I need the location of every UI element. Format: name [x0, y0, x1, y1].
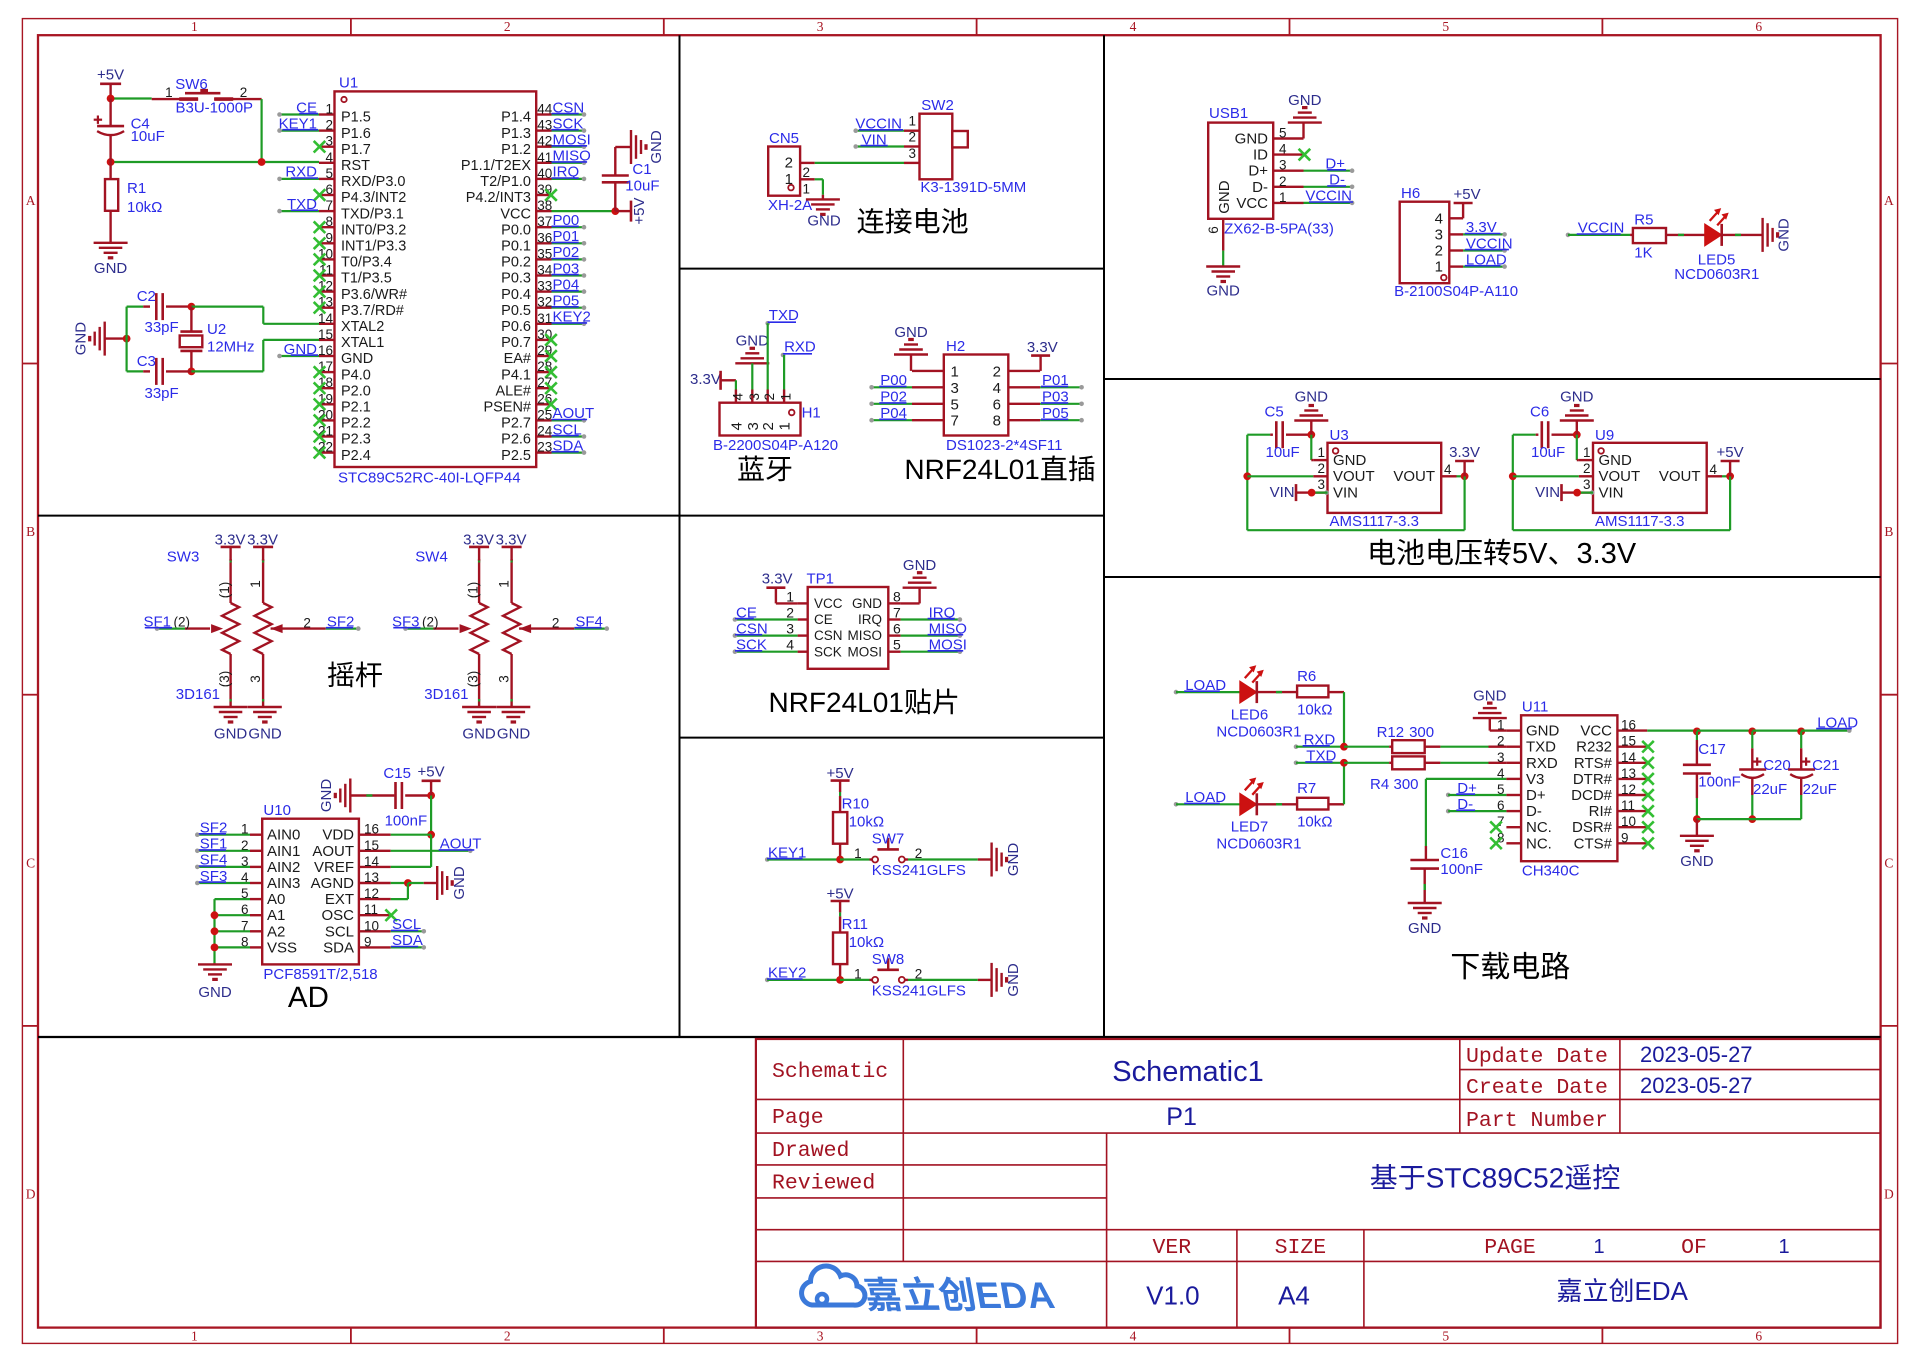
wire R12 to U11.2	[1440, 746, 1488, 748]
net label SCL (U1.24)	[552, 435, 585, 437]
junction VDD	[427, 831, 435, 839]
U1 pin 40 T2/P1.0	[536, 178, 551, 180]
svg-text:A1: A1	[267, 907, 285, 924]
svg-text:2: 2	[803, 165, 811, 180]
H2 pin 2	[1008, 370, 1040, 372]
crystal U2	[190, 307, 192, 332]
svg-text:D-: D-	[1252, 179, 1268, 196]
svg-text:1: 1	[1435, 259, 1443, 276]
svg-text:EXT: EXT	[325, 891, 354, 908]
capacitor C16	[1410, 859, 1439, 862]
svg-text:GND: GND	[341, 351, 373, 367]
svg-text:GND: GND	[248, 725, 282, 742]
svg-text:300: 300	[1409, 724, 1434, 741]
capacitor C3	[143, 370, 150, 372]
svg-text:ALE#: ALE#	[496, 383, 531, 399]
svg-text:AMS1117-3.3: AMS1117-3.3	[1330, 513, 1420, 530]
svg-text:GND: GND	[736, 333, 770, 350]
power flag +5V (H6.4)	[1462, 203, 1464, 218]
led LED7	[1240, 793, 1257, 815]
svg-text:R6: R6	[1297, 668, 1316, 685]
U1 pin 26 PSEN#	[536, 403, 551, 405]
ground GND (U11.1)	[1473, 717, 1507, 719]
svg-text:C16: C16	[1440, 845, 1468, 862]
svg-text:H1: H1	[802, 405, 821, 422]
svg-text:15: 15	[364, 838, 379, 853]
junction C21/VCC	[1797, 728, 1805, 736]
svg-text:SW6: SW6	[175, 76, 208, 93]
ground GND (C17/C20/C21)	[1696, 819, 1698, 836]
net label AOUT (U1.25)	[552, 419, 585, 421]
U10 pin 8 VSS	[250, 946, 262, 948]
svg-text:V3: V3	[1526, 771, 1544, 788]
resistor R7	[1257, 803, 1297, 805]
U3 pin 4 VOUT	[1441, 475, 1456, 477]
svg-text:5: 5	[893, 637, 901, 653]
U1 pin1 indicator circle	[341, 97, 346, 102]
section title NRF24L01直插	[907, 460, 923, 479]
junction C2/XTAL2	[188, 303, 196, 311]
wire R7 to TXD junction	[1343, 763, 1345, 805]
no-connect U11.12	[1642, 789, 1654, 801]
svg-text:U9: U9	[1595, 427, 1614, 444]
no-connect U11.14	[1642, 757, 1654, 769]
net label IRQ (TP1.7)	[901, 618, 960, 620]
svg-text:USB1: USB1	[1209, 105, 1248, 122]
wire C2 row	[127, 306, 144, 308]
U1 pin 16 GND	[319, 355, 335, 357]
U1 pin 8 INT0/P3.2	[319, 226, 335, 228]
ground GND (USB1.6)	[1222, 251, 1224, 267]
U1 pin 30 P0.7	[536, 339, 551, 341]
SW4 left element wire bottom	[478, 654, 480, 707]
net label P04 (U1.33)	[552, 291, 585, 293]
wire SW7 to gnd	[905, 858, 908, 860]
svg-text:100nF: 100nF	[385, 813, 428, 830]
svg-text:PCF8591T/2,518: PCF8591T/2,518	[263, 966, 377, 983]
SW3 right element wire bottom	[262, 654, 264, 707]
H2 pin 1	[912, 370, 944, 372]
svg-text:P3.6/WR#: P3.6/WR#	[341, 287, 407, 303]
net label MOSI (U1.42)	[552, 146, 585, 148]
svg-text:RI#: RI#	[1589, 803, 1613, 820]
pushbutton SW6	[152, 98, 198, 100]
net label P02 (H2.5)	[872, 403, 912, 405]
svg-text:OF: OF	[1681, 1236, 1707, 1260]
svg-text:A4: A4	[1278, 1281, 1310, 1311]
U1 pin 18 P2.0	[319, 387, 335, 389]
U10 pin 4 AIN3	[250, 882, 262, 884]
ground GND (TP1.8)	[903, 587, 937, 589]
svg-text:14: 14	[1621, 750, 1637, 765]
U1 pin 15 XTAL1	[319, 339, 335, 341]
svg-text:AOUT: AOUT	[312, 843, 354, 860]
U1 pin 44 P1.4	[536, 113, 551, 115]
U1 pin 35 P0.2	[536, 258, 551, 260]
no-connect USB1.4	[1299, 149, 1311, 161]
wire CN5.1 to gnd	[815, 178, 823, 180]
USB1 pin 1 VCC	[1273, 202, 1303, 204]
net label LOAD (LED7)	[1174, 802, 1179, 807]
svg-text:SCL: SCL	[325, 923, 354, 940]
svg-text:GND: GND	[1473, 688, 1507, 705]
svg-text:P1.6: P1.6	[341, 126, 371, 142]
svg-text:TXD/P3.1: TXD/P3.1	[341, 206, 404, 222]
net label SF2 (U10.1)	[197, 834, 250, 836]
junction C GND	[1307, 431, 1315, 439]
svg-text:1: 1	[777, 422, 794, 430]
svg-text:SDA: SDA	[323, 939, 354, 956]
svg-text:C15: C15	[383, 765, 411, 782]
svg-text:2: 2	[240, 85, 248, 100]
svg-text:PAGE: PAGE	[1484, 1236, 1536, 1260]
svg-text:NCD0603R1: NCD0603R1	[1216, 835, 1301, 852]
svg-text:VOUT: VOUT	[1599, 468, 1641, 485]
svg-text:DCD#: DCD#	[1571, 787, 1612, 804]
svg-text:3: 3	[908, 146, 916, 161]
svg-text:6: 6	[1755, 1329, 1762, 1344]
svg-text:P2.1: P2.1	[341, 400, 371, 416]
U1 pin 37 P0.0	[536, 226, 551, 228]
svg-text:P3.7/RD#: P3.7/RD#	[341, 303, 404, 319]
svg-text:GND: GND	[1207, 283, 1241, 300]
svg-text:41: 41	[537, 150, 552, 165]
no-connect U11.15	[1642, 741, 1654, 753]
svg-text:+5V: +5V	[1717, 444, 1744, 461]
svg-text:1: 1	[786, 588, 794, 604]
svg-text:4: 4	[728, 422, 745, 430]
resistor R11	[833, 933, 847, 965]
net label SCK (U1.43)	[552, 130, 585, 132]
no-connect U11.11	[1642, 805, 1654, 817]
U1 pin 22 P2.4	[319, 451, 335, 453]
svg-text:33: 33	[537, 279, 552, 294]
svg-text:1: 1	[1317, 445, 1325, 460]
svg-text:P0.2: P0.2	[501, 255, 531, 271]
U1 pin 19 P2.1	[319, 403, 335, 405]
svg-text:+5V: +5V	[631, 198, 648, 225]
led LED6	[1240, 681, 1257, 703]
svg-text:GND: GND	[1526, 723, 1560, 740]
junction AGND/EXT	[404, 879, 412, 887]
wire VCC net	[1647, 729, 1697, 731]
U11 pin 14 RTS#	[1617, 762, 1647, 764]
U11 pin 15 R232	[1617, 746, 1647, 748]
wire RST row	[111, 161, 319, 163]
svg-text:8: 8	[993, 413, 1001, 430]
power flag +5V (C15)	[430, 781, 432, 796]
U10 pin 2 AIN1	[250, 850, 262, 852]
svg-text:P1.7: P1.7	[341, 142, 371, 158]
net label D+ (USB1.3)	[1304, 170, 1353, 172]
svg-text:P2.0: P2.0	[341, 383, 371, 399]
svg-text:GND: GND	[1005, 843, 1022, 877]
svg-text:V1.0: V1.0	[1146, 1281, 1200, 1311]
svg-text:2023-05-27: 2023-05-27	[1640, 1073, 1753, 1098]
SW3 right zigzag	[255, 603, 272, 654]
net label RXD (H1.1)	[781, 353, 786, 358]
svg-text:GND: GND	[198, 984, 232, 1001]
svg-text:(2): (2)	[422, 614, 439, 629]
section title 连接电池	[857, 208, 883, 234]
section title 下载电路	[1452, 954, 1479, 979]
svg-text:2: 2	[1583, 461, 1591, 476]
svg-text:SW8: SW8	[872, 951, 905, 968]
svg-text:R1: R1	[127, 180, 146, 197]
wire C16 to gnd	[1423, 869, 1425, 903]
net label P02 (U1.35)	[552, 258, 585, 260]
CN5 pin 1	[800, 178, 815, 180]
ground GND (C1, rotated right)	[630, 130, 632, 164]
wire AGND	[391, 882, 408, 884]
svg-text:4: 4	[1435, 210, 1443, 227]
U10 pin 16 VDD	[359, 834, 391, 836]
no-connect U10.11 OSC	[385, 909, 397, 921]
svg-text:P4.2/INT3: P4.2/INT3	[466, 190, 531, 206]
svg-text:15: 15	[318, 327, 333, 342]
net label LOAD (VCC)	[1801, 729, 1849, 731]
no-connect U11.8	[1490, 838, 1502, 850]
svg-text:B: B	[1884, 524, 1893, 539]
ground GND (USB1.5)	[1302, 123, 1304, 139]
svg-text:VIN: VIN	[1270, 484, 1295, 501]
svg-text:9: 9	[364, 934, 372, 949]
svg-text:22uF: 22uF	[1753, 781, 1787, 798]
svg-text:KSS241GLFS: KSS241GLFS	[872, 862, 966, 879]
junction U10 gnd bus	[211, 927, 219, 935]
junction RXD/R6	[1340, 743, 1348, 751]
svg-text:Page: Page	[772, 1106, 824, 1130]
svg-text:13: 13	[1621, 766, 1636, 781]
svg-text:R232: R232	[1576, 739, 1612, 756]
connector H6 body	[1400, 202, 1450, 284]
net label P05 (H2.8)	[1040, 419, 1082, 421]
H1 pin1 indicator	[789, 410, 795, 416]
U1 pin 12 P3.6/WR#	[319, 290, 335, 292]
svg-text:1: 1	[191, 19, 198, 34]
svg-text:4: 4	[730, 393, 745, 401]
net label TXD (H1.2)	[765, 321, 770, 326]
svg-text:3: 3	[325, 134, 333, 149]
U10 pin 11 OSC	[359, 914, 391, 916]
USB1 pin 5 GND	[1273, 137, 1303, 139]
ground GND (LED5, rotated right)	[1761, 218, 1763, 252]
U1 pin 33 P0.4	[536, 290, 551, 292]
svg-text:C2: C2	[137, 288, 156, 305]
svg-text:33pF: 33pF	[145, 385, 179, 402]
resistor R10	[833, 812, 847, 844]
U1 pin 36 P0.1	[536, 242, 551, 244]
USB1 pin 6 GND shield	[1222, 219, 1224, 251]
U1 pin 27 ALE#	[536, 387, 551, 389]
no-connect U11.7	[1490, 821, 1502, 833]
svg-text:3D161: 3D161	[424, 686, 468, 703]
svg-text:5: 5	[325, 166, 333, 181]
ground GND (AGND, rotated right)	[436, 866, 438, 900]
svg-text:K3-1391D-5MM: K3-1391D-5MM	[920, 179, 1026, 196]
SW4 wiper left (2)	[434, 627, 459, 629]
wire gnd bus bottom	[1697, 818, 1801, 820]
svg-text:H6: H6	[1401, 185, 1420, 202]
resistor R12	[1344, 746, 1389, 748]
svg-text:TXD: TXD	[1526, 739, 1556, 756]
switch SW8	[872, 977, 878, 983]
connector H2 body	[944, 355, 1009, 436]
U10 pin 10 SCL	[359, 930, 391, 932]
wire U9.2 feedback	[1513, 475, 1579, 477]
svg-text:A0: A0	[267, 891, 285, 908]
svg-text:100nF: 100nF	[1440, 861, 1483, 878]
wire R5 to LED5	[1666, 234, 1705, 236]
net label TXD (U1.7)	[280, 210, 320, 212]
H2 pin 7	[912, 419, 944, 421]
net label VCCIN (R5)	[1566, 233, 1571, 238]
svg-text:2023-05-27: 2023-05-27	[1640, 1042, 1753, 1067]
ground GND (SW8, rotated right)	[990, 963, 992, 997]
svg-text:2: 2	[993, 363, 1001, 380]
U1 pin 4 RST	[319, 162, 335, 164]
U1 pin 10 T0/P3.4	[319, 258, 335, 260]
U11 pin 6 D-	[1506, 810, 1521, 812]
svg-text:TP1: TP1	[807, 571, 835, 588]
U10 pin 7 A2	[250, 930, 262, 932]
svg-text:R5: R5	[1634, 212, 1653, 229]
H1 pin 2	[767, 390, 769, 403]
ground GND (crystal, rotated left)	[103, 322, 105, 356]
svg-text:NC.: NC.	[1526, 819, 1552, 836]
svg-text:P0.4: P0.4	[501, 287, 531, 303]
svg-text:A: A	[26, 193, 36, 208]
wire to SW8	[840, 979, 869, 981]
no-connect U11.13	[1642, 773, 1654, 785]
svg-text:100nF: 100nF	[1698, 774, 1741, 791]
svg-text:2: 2	[504, 19, 511, 34]
svg-text:1: 1	[1279, 190, 1287, 205]
U11 pin 2 TXD	[1506, 746, 1521, 748]
svg-text:2: 2	[785, 155, 793, 172]
svg-text:3.3V: 3.3V	[762, 571, 793, 588]
svg-text:C3: C3	[137, 353, 156, 370]
svg-text:4: 4	[993, 380, 1001, 397]
ground GND (U10)	[213, 963, 215, 964]
svg-text:3: 3	[747, 393, 762, 401]
net label KEY2 (U1.31)	[552, 323, 585, 325]
svg-text:GND: GND	[318, 779, 335, 813]
svg-text:2: 2	[552, 616, 560, 631]
svg-text:GND: GND	[462, 725, 496, 742]
svg-text:GND: GND	[1288, 92, 1322, 109]
H6 pin 4	[1449, 217, 1463, 219]
svg-text:3: 3	[1279, 158, 1287, 173]
svg-text:8: 8	[893, 588, 901, 604]
svg-text:GND: GND	[451, 866, 468, 900]
H1 pin 3	[751, 390, 753, 403]
U1 pin 41 P1.1/T2EX	[536, 162, 551, 164]
module TP1 body	[808, 587, 889, 669]
svg-text:GND: GND	[1295, 389, 1329, 406]
svg-text:2: 2	[1497, 734, 1505, 749]
svg-text:GND: GND	[1333, 452, 1367, 469]
U11 pin 13 DTR#	[1617, 778, 1647, 780]
capacitor C15	[350, 794, 394, 796]
svg-text:5: 5	[951, 396, 959, 413]
svg-text:3.3V: 3.3V	[1449, 444, 1480, 461]
svg-text:4: 4	[786, 637, 794, 653]
junction TXD/R7	[1340, 759, 1348, 767]
net label SF1 (U10.2)	[197, 850, 250, 852]
svg-text:B-2200S04P-A120: B-2200S04P-A120	[713, 437, 838, 454]
svg-text:3: 3	[497, 675, 512, 683]
svg-text:CN5: CN5	[769, 130, 799, 147]
resistor R6	[1257, 691, 1297, 693]
ground GND (SW4 left)	[462, 706, 496, 708]
U10 pin 1 AIN0	[250, 834, 262, 836]
svg-text:22uF: 22uF	[1803, 781, 1837, 798]
U3 pin 3 VIN	[1313, 491, 1327, 493]
svg-text:EA#: EA#	[504, 351, 531, 367]
svg-text:P2.7: P2.7	[501, 416, 531, 432]
net label D+ (U11.5)	[1446, 793, 1451, 798]
net label VCCIN (H6.2)	[1463, 249, 1505, 251]
svg-text:PSEN#: PSEN#	[483, 400, 531, 416]
svg-text:ID: ID	[1253, 147, 1268, 164]
svg-text:OSC: OSC	[321, 907, 354, 924]
U1 pin 1 P1.5	[319, 113, 335, 115]
svg-text:STC89C52RC-40I-LQFP44: STC89C52RC-40I-LQFP44	[338, 470, 521, 487]
svg-text:NC.: NC.	[1526, 835, 1552, 852]
net label TXD (CH340)	[1294, 761, 1299, 766]
wire A0-A1-A2-VSS to gnd	[215, 898, 251, 900]
svg-text:Drawed: Drawed	[772, 1139, 849, 1163]
switch SW7	[872, 857, 878, 863]
net label KEY1	[765, 857, 770, 862]
U1 pin 11 T1/P3.5	[319, 274, 335, 276]
SW2 pin 3	[904, 162, 920, 164]
wire to SW7	[840, 858, 869, 860]
svg-text:RTS#: RTS#	[1574, 755, 1613, 772]
svg-text:T2/P1.0: T2/P1.0	[480, 174, 531, 190]
svg-text:1: 1	[497, 580, 512, 588]
title block 嘉立创EDA cell	[1558, 1278, 1581, 1302]
svg-text:DS1023-2*4SF11: DS1023-2*4SF11	[946, 437, 1062, 454]
SW4 right element wire top	[510, 559, 512, 603]
svg-text:1: 1	[951, 363, 959, 380]
ground GND (SW4 right)	[496, 706, 530, 708]
svg-text:1: 1	[908, 114, 916, 129]
svg-text:5: 5	[1279, 126, 1287, 141]
svg-text:P0.3: P0.3	[501, 271, 531, 287]
U11 pin 9 CTS#	[1617, 842, 1647, 844]
svg-text:1: 1	[248, 580, 263, 588]
svg-text:38: 38	[537, 198, 552, 213]
svg-text:GND: GND	[1235, 131, 1269, 148]
net label MOSI (TP1.5)	[901, 651, 960, 653]
U9 pin 2 VOUT	[1579, 475, 1593, 477]
svg-text:5: 5	[1442, 19, 1449, 34]
TP1 pin 7	[888, 618, 900, 620]
junction C3/crystal	[188, 368, 196, 376]
connector USB1 body	[1208, 123, 1273, 219]
SW3 left zigzag	[222, 603, 239, 654]
svg-text:GND: GND	[1560, 389, 1594, 406]
wire EXT elbow	[391, 898, 408, 900]
U9 pin 4 VOUT	[1707, 475, 1722, 477]
svg-text:1: 1	[779, 393, 794, 401]
svg-text:Create Date: Create Date	[1466, 1076, 1608, 1100]
TP1 pin 1	[798, 602, 808, 604]
TP1 pin 5	[888, 651, 900, 653]
wire C3 row	[127, 370, 144, 372]
